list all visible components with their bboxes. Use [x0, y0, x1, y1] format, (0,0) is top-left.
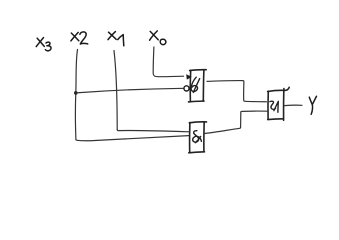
wire U2 output — [205, 111, 267, 133]
wire x1 horizontal to U2 — [117, 130, 189, 132]
& symbol inside U1 — [191, 77, 200, 92]
& symbol inside U2 — [193, 131, 202, 143]
wire x1 vertical — [114, 51, 117, 130]
input label x3 — [36, 38, 51, 51]
AND gate U1 box — [189, 70, 207, 102]
input label x1 — [108, 32, 124, 46]
arrowhead at U1 upper input — [186, 74, 192, 79]
input label x2 — [71, 32, 88, 44]
wire x2 branch to U1 bubble — [76, 88, 184, 93]
wire U1 output — [207, 81, 267, 102]
inversion bubble on U1 lower input — [184, 86, 189, 91]
junction node on x2 — [74, 91, 78, 95]
wire x2 lower horizontal to U2 — [76, 136, 189, 141]
input label x0 — [150, 31, 166, 45]
OR gate U3 box — [268, 87, 290, 120]
AND gate U2 box — [189, 122, 207, 153]
output label Y — [309, 96, 316, 114]
wire x2 vertical — [75, 50, 77, 140]
wire x0 vertical — [153, 47, 183, 77]
wire U3 output — [284, 104, 302, 106]
>=1 symbol inside U3 — [270, 101, 278, 112]
